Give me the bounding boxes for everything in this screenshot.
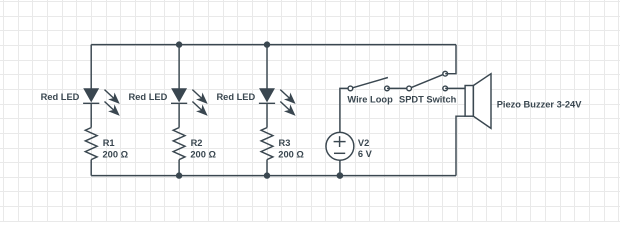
label: SPDT Switch — [399, 95, 457, 105]
svg-text:Wire Loop: Wire Loop — [347, 95, 393, 105]
svg-text:R3: R3 — [279, 138, 291, 148]
wire: LED3 cathode to resistor R3 — [266, 103, 268, 127]
svg-text:Red LED: Red LED — [41, 92, 80, 102]
LED D2 (Red LED) diode symbol with light arrows — [171, 89, 207, 115]
piezo buzzer LS1 (speaker symbol: driver box + horn) — [465, 74, 491, 129]
junction: branch 2 top node — [176, 41, 182, 47]
LED D3 (Red LED) diode symbol with light arrows — [259, 89, 295, 115]
wire: resistor R1 to bottom rail — [90, 160, 92, 176]
wire: LED2 cathode to resistor R2 — [178, 103, 180, 127]
svg-text:Red LED: Red LED — [216, 92, 255, 102]
label: Red LED (D2) — [129, 92, 168, 102]
LED D1 (Red LED) diode symbol with light arrows — [83, 89, 119, 115]
svg-text:R1: R1 — [103, 138, 115, 148]
switch S1: wire loop (open blade with two terminals) — [348, 78, 389, 91]
wire: SPDT upper throw to top rail — [445, 45, 456, 74]
svg-text:200 Ω: 200 Ω — [103, 150, 129, 160]
junction: branch 2 bottom node — [176, 172, 182, 178]
label: R3 value 200 Ω — [278, 138, 304, 160]
wire: SPDT lower throw to buzzer positive terminal — [445, 87, 465, 89]
svg-text:V2: V2 — [358, 138, 369, 148]
wire: LED1 cathode to resistor R1 — [90, 103, 92, 127]
wire: branch 1 anode riser from top rail to LED1 — [90, 45, 92, 90]
junction: branch 3 bottom node — [264, 172, 270, 178]
svg-text:R2: R2 — [191, 138, 203, 148]
svg-text:200 Ω: 200 Ω — [190, 150, 216, 160]
label: Red LED (D1) — [41, 92, 80, 102]
svg-text:SPDT Switch: SPDT Switch — [399, 95, 457, 105]
wire: resistor R2 to bottom rail — [178, 160, 180, 176]
label: Red LED (D3) — [216, 92, 255, 102]
wire: top supply rail — [91, 44, 456, 46]
wire: V2 negative terminal to bottom rail — [339, 160, 341, 175]
label: Piezo Buzzer 3-24V — [497, 100, 583, 110]
wire: wire loop to SPDT pole — [387, 87, 409, 89]
wire: branch 2 anode riser from top rail to LED2 — [178, 45, 180, 90]
wire: buzzer negative terminal down to bottom rail — [456, 116, 465, 175]
wire: bottom return rail — [91, 175, 456, 177]
wire: V2 positive terminal riser and link to wire loop — [340, 88, 351, 132]
label: Wire Loop — [347, 95, 393, 105]
label: R1 value 200 Ω — [103, 138, 129, 160]
resistor R2 200 ohm zigzag — [173, 128, 185, 160]
svg-text:6 V: 6 V — [358, 149, 373, 159]
resistor R3 200 ohm zigzag — [261, 128, 273, 160]
junction: V2 bottom node — [337, 172, 344, 179]
switch S2: SPDT (pole, blade to upper throw, lower throw) — [407, 71, 448, 90]
junction: branch 3 top node — [264, 41, 270, 47]
svg-text:Red LED: Red LED — [129, 92, 168, 102]
svg-text:Piezo Buzzer 3-24V: Piezo Buzzer 3-24V — [497, 100, 583, 110]
wire: resistor R3 to bottom rail — [266, 160, 268, 176]
voltage source V2 (6 V DC) — [326, 132, 354, 160]
resistor R1 200 ohm zigzag — [85, 128, 97, 160]
label: V2 6 V — [358, 138, 373, 159]
wire: branch 3 anode riser from top rail to LED3 — [266, 45, 268, 90]
svg-text:200 Ω: 200 Ω — [278, 150, 304, 160]
label: R2 value 200 Ω — [190, 138, 216, 160]
